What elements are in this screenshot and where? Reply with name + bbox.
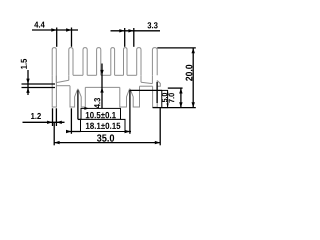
base underside middle (85, 86, 120, 88)
dim 35.0 text (97, 134, 114, 141)
dim 20.0 dimension line (192, 48, 194, 108)
dim 3.3 arrowheads (119, 29, 124, 32)
dim 10.5±0.1 frame box (81, 108, 121, 119)
left wall column with solder tab foot (52, 75, 56, 107)
dim 1.5 web thickness: rotated text (21, 59, 27, 69)
right foot (153, 81, 158, 108)
dim 3.3 extension lines (124, 28, 126, 47)
dim 7.0 rotated text (169, 93, 175, 103)
dim 10.5±0.1 : extension from pin1 apex (77, 90, 79, 119)
fin 1 (52, 48, 56, 76)
dim 4.3 dimension line (vertical) (101, 64, 103, 112)
fin 5 (111, 48, 115, 76)
bottom notch 2 ceiling (140, 85, 153, 87)
dim 35.0 dimension line (54, 142, 160, 144)
right side extension line from pin2 apex (y=90.4) (130, 89, 162, 91)
right wing lip (157, 81, 160, 87)
dim 7.0 dimension line (180, 88, 182, 108)
dim 18.1±0.15 text (86, 123, 120, 129)
dim 1.5 arrowheads (26, 79, 29, 84)
dim 20.0 bottom extension line (153, 107, 196, 109)
dim 18.1±0.15 arrowheads (66, 130, 71, 133)
fin 4 (97, 48, 101, 76)
dim 10.5±0.1 stub line (78, 118, 81, 120)
fin 7 (137, 48, 141, 76)
dim 35.0 overall width: left extension line (53, 123, 55, 146)
dim 4.3 base thickness: rotated text (94, 98, 100, 108)
dim 18.1±0.15 frame box (81, 119, 126, 131)
dim 20.0 overall height: top extension line (157, 47, 196, 49)
dim 1.2 solder tab width: text (31, 113, 41, 119)
dim 10.5±0.1 text (86, 112, 116, 118)
dim 4.4 dimension line (32, 29, 78, 31)
dim 20.0 rotated text (186, 65, 193, 81)
split solder pin 2 (arched slit) (120, 86, 140, 107)
base top surface segments between fins (73, 74, 83, 76)
fin 3 (83, 48, 87, 76)
fin 8 (152, 48, 157, 76)
split solder pin 1 (arched slit) (70, 86, 85, 107)
dim 1.2 extension lines (52, 108, 54, 126)
fin 6 (124, 48, 128, 76)
dim 1.2 arrowheads (47, 121, 52, 124)
dim 5.0 arrowheads on box edge (167, 90, 169, 94)
fin 2 (69, 48, 73, 76)
dim 7.0 arrowheads (179, 88, 182, 93)
dim 4.4 fin pitch left: text (34, 22, 44, 28)
dim 4.4 extension line on fin1 (56, 28, 58, 47)
dim 1.5 extension lines into body (22, 83, 56, 85)
dim 10.5±0.1 arrowhead on box top (84, 107, 89, 110)
dim 5.0 frame box (162, 90, 168, 107)
dim 5.0 rotated text (162, 93, 167, 102)
deep groove between fin7 and fin8 (ramp floor) (140, 75, 142, 82)
dim 35.0 right extension line (159, 108, 161, 146)
short extension above bottom right foot (156, 82, 158, 103)
dim 35.0 arrowheads (54, 141, 59, 144)
dim 4.4 arrowheads (51, 28, 56, 31)
dim 1.2 dimension line (23, 121, 65, 123)
dim 4.4 extension line on fin2 (71, 28, 73, 47)
dim 20.0 arrowheads (192, 48, 195, 53)
bottom notch 1 ceiling (56, 85, 70, 87)
dim 3.3 fin pitch right: text (147, 22, 157, 28)
dim 18.1±0.15 : left extension line (70, 108, 72, 134)
dim 18.1±0.15 right extension from pin2 apex (129, 90, 131, 134)
right side extension line upper (y=88) (168, 87, 183, 89)
dim 18.1±0.15 dimension line stubs (66, 131, 81, 133)
dim 1.5 dimension line (vertical) (27, 70, 29, 95)
deep groove between fin1 and fin2 (ramp floor) (55, 75, 57, 82)
dim 4.3 arrowheads (100, 70, 103, 75)
dim 3.3 dimension line (111, 30, 161, 32)
